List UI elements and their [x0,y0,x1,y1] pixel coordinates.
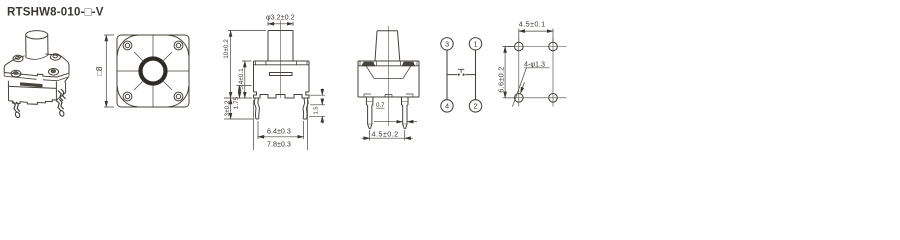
svg-text:5.4±0.1: 5.4±0.1 [238,68,245,90]
svg-text:6.6±0.2: 6.6±0.2 [496,66,505,92]
svg-text:3±0.2: 3±0.2 [224,100,231,116]
svg-text:4.5±0.2: 4.5±0.2 [372,130,399,139]
svg-text:□8: □8 [95,66,104,75]
svg-text:4.5±0.1: 4.5±0.1 [519,20,546,29]
svg-text:4: 4 [445,102,449,111]
svg-text:RTSHW8-010-□-V: RTSHW8-010-□-V [7,7,104,19]
svg-text:1.5: 1.5 [314,106,320,114]
svg-text:1.75: 1.75 [233,96,240,109]
svg-text:6.4±0.3: 6.4±0.3 [267,127,291,136]
svg-text:7.8±0.3: 7.8±0.3 [267,140,291,149]
svg-text:1: 1 [473,39,477,48]
svg-text:φ3.2±0.2: φ3.2±0.2 [266,13,295,22]
svg-text:10±0.2: 10±0.2 [223,39,230,59]
svg-text:3: 3 [445,39,449,48]
svg-text:4-φ1.3: 4-φ1.3 [524,60,545,69]
svg-text:2: 2 [473,102,477,111]
